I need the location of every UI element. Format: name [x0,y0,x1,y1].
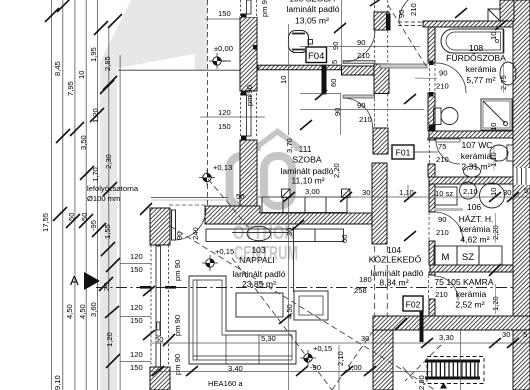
room 107 label [461,140,493,172]
chair room105 [289,31,313,53]
svg-text:90: 90 [439,69,447,78]
level mark 0,00 [209,44,233,69]
dashed diagonals [170,5,441,390]
black wall bar [322,65,326,94]
svg-text:pm 90: pm 90 [173,260,182,281]
top right wall piece [500,0,514,21]
svg-text:11,10 m²: 11,10 m² [291,176,324,186]
wall column between doors [374,64,389,94]
svg-text:laminált padló: laminált padló [370,268,423,278]
svg-text:2,85: 2,85 [103,56,112,71]
wall vestibule/room111 [342,66,376,75]
svg-text:210: 210 [435,290,448,299]
wall south band of upper section [205,206,376,224]
nappali NW door leaf [172,210,176,240]
window upper-left wall top [240,0,257,18]
black bar top [387,14,391,30]
WC door leaf [436,139,460,142]
svg-text:+0,15: +0,15 [215,247,234,256]
bathroom toilet [434,108,459,125]
wall left mid [240,140,257,206]
door dim texts [177,38,449,237]
bathroom top wall [423,21,514,27]
HAZT door arc [434,212,463,241]
svg-text:4,50: 4,50 [285,304,294,319]
svg-text:111: 111 [298,144,311,154]
nappali NW door arc [174,208,206,240]
svg-text:10: 10 [279,76,288,84]
corner marker sq right [342,189,351,198]
svg-text:60: 60 [340,235,349,243]
svg-text:1,20: 1,20 [105,332,114,347]
dimension ticks left column [45,0,122,368]
dryer SZ [457,246,479,265]
svg-text:108: 108 [469,43,484,53]
stairs [425,357,484,389]
wall column vestibule top [374,12,389,30]
svg-text:2,31 m²: 2,31 m² [461,162,490,172]
svg-text:F01: F01 [396,148,411,158]
wall bath/WC [429,131,513,138]
right exterior wall [513,0,530,390]
level mark +0,15 south [300,344,332,372]
svg-text:SZ: SZ [462,252,474,263]
svg-text:4,50: 4,50 [78,304,87,319]
bathroom sink [500,62,516,85]
terrace / eaves gray zone [100,0,208,390]
svg-text:1,00: 1,00 [347,363,362,372]
bottom left wall going down [373,330,393,390]
svg-text:laminált padló: laminált padló [280,166,333,176]
door room105 leaf [343,61,375,64]
door room111 leaf [343,95,375,98]
svg-text:NAPPALI: NAPPALI [239,255,275,265]
svg-text:HEA160 a: HEA160 a [208,379,243,388]
svg-text:2,80: 2,80 [417,375,426,390]
section line A-A dash-dot [96,287,530,289]
svg-text:F02: F02 [406,300,421,310]
door room111 arc [343,98,373,128]
svg-text:4,50: 4,50 [65,304,74,319]
eaves dashed line [207,0,209,207]
F04 box [306,47,327,63]
svg-text:150: 150 [130,265,143,274]
corridor west wall upper [373,128,388,154]
svg-text:8,84 m²: 8,84 m² [379,278,408,288]
corridor east wall segment 3 [428,138,435,140]
svg-text:1,10: 1,10 [489,152,498,167]
level mark +0,15 nappali [202,247,234,271]
svg-text:2,30: 2,30 [104,154,113,169]
window right wall [514,168,530,185]
svg-text:210: 210 [436,82,449,91]
svg-text:2,52 m²: 2,52 m² [455,300,484,310]
dimension ticks plan [140,0,519,376]
svg-text:104: 104 [387,245,402,255]
svg-text:laminált padló: laminált padló [232,269,285,279]
svg-text:3,60: 3,60 [89,302,98,317]
svg-text:3,00: 3,00 [305,187,320,196]
HAZT boiler circles [460,182,477,199]
svg-text:1,70: 1,70 [91,167,100,182]
svg-text:-95: -95 [89,220,98,231]
svg-text:2,20: 2,20 [332,163,341,178]
svg-text:30: 30 [362,188,370,197]
F02 box [403,296,423,311]
svg-text:150: 150 [130,363,143,372]
HAZT shelf [435,187,457,205]
F01 box [392,145,438,159]
room 104 label [369,245,424,288]
svg-text:75 105 KAMRA: 75 105 KAMRA [434,277,494,287]
svg-text:120: 120 [130,303,143,312]
svg-text:210: 210 [436,228,449,237]
svg-text:150: 150 [218,9,231,18]
svg-text:pm 9: pm 9 [260,0,269,17]
svg-text:105 SZOBA: 105 SZOBA [289,0,335,4]
svg-text:FÜRDŐSZOBA: FÜRDŐSZOBA [446,53,506,63]
svg-text:210: 210 [409,3,418,16]
svg-text:90: 90 [397,10,406,18]
corridor east wall segment 6 [429,241,435,265]
watermark logo roof [230,132,298,207]
corridor east wall segment 5 [429,184,435,212]
svg-text:150: 150 [130,316,143,325]
kitchen counter [206,226,344,292]
svg-text:90: 90 [331,42,340,50]
corridor east wall segment 2 [428,93,435,131]
WC basin [464,166,481,177]
corridor east wall segment 8 [429,299,435,317]
svg-text:kerámia: kerámia [461,151,492,161]
svg-text:258: 258 [354,286,367,295]
corner marker sq left [282,189,291,198]
corner vent square top right [488,9,500,21]
room111 wardrobe row [262,197,347,213]
svg-text:8,45: 8,45 [53,61,62,76]
wall WC/HAZT [429,177,513,184]
svg-text:210: 210 [436,155,449,164]
svg-text:240: 240 [191,227,200,240]
svg-text:SZOBA: SZOBA [292,155,321,165]
svg-text:90: 90 [357,101,365,110]
wall left upper [240,17,257,91]
svg-text:4,62 m²: 4,62 m² [460,235,489,245]
svg-text:5: 5 [524,186,528,195]
svg-text:M: M [442,252,450,263]
shower [481,99,512,130]
svg-text:F04: F04 [308,51,324,62]
windows nappali west wall [151,245,169,367]
eave base line [118,69,240,71]
svg-text:HÁZT. H.: HÁZT. H. [459,214,494,224]
svg-text:5: 5 [523,330,527,339]
svg-text:pm 90: pm 90 [173,315,182,336]
walls group [150,0,530,390]
sofa [189,276,296,364]
svg-text:120: 120 [218,108,231,117]
lintel bar corridor [380,64,427,68]
wall HAZT/KAMRA [430,265,513,272]
svg-text:2,10: 2,10 [463,187,478,196]
svg-text:5,77 m²: 5,77 m² [466,75,495,85]
svg-text:120: 120 [130,252,143,261]
wall block bottom left [150,367,170,390]
washing machine M [434,246,457,265]
corridor east wall segment 7 [429,272,435,275]
wall nib black sq [253,45,258,50]
door jamb dashes vestibule [375,0,388,128]
svg-text:17,55: 17,55 [41,213,50,232]
svg-text:7,95: 7,95 [66,81,75,96]
watermark O glyph 1 [230,156,254,206]
svg-text:13,05 m²: 13,05 m² [295,16,329,26]
svg-text:30: 30 [502,330,510,339]
hall top door dashes [398,21,424,23]
level mark +0,13 [199,163,232,186]
svg-text:KÖZLEKEDŐ: KÖZLEKEDŐ [369,255,422,265]
room 103 label [232,245,285,289]
svg-text:3,70: 3,70 [285,138,294,153]
room 105k label [434,277,494,310]
svg-text:9,10: 9,10 [53,375,62,390]
KAMRA door arc [434,276,458,300]
svg-text:laminált padló: laminált padló [286,4,339,14]
door room105 arc [343,30,375,62]
corridor west wall lower [372,163,387,244]
room 108 label [446,43,506,85]
svg-text:5,30: 5,30 [261,334,276,343]
svg-text:kerámia: kerámia [460,224,491,234]
svg-text:50: 50 [236,192,244,201]
svg-text:107 WC: 107 WC [461,140,492,150]
corridor east wall segment 4 [428,164,435,177]
steel post black bar [420,296,424,342]
svg-text:pm 90: pm 90 [245,85,254,106]
svg-text:60: 60 [329,79,338,87]
svg-text:90: 90 [175,232,184,240]
HAZT door lintel [434,208,463,211]
svg-text:180: 180 [359,275,372,284]
svg-text:210: 210 [357,51,370,60]
svg-text:106: 106 [467,202,482,212]
svg-text:±0,00: ±0,00 [214,44,233,53]
dim lines [120,0,530,390]
right side small dim lines [494,62,504,314]
table [236,293,283,317]
corridor east wall segment 1 [428,27,435,63]
left dimension rotated texts [41,47,114,390]
svg-text:150: 150 [218,122,231,131]
svg-text:kerámia: kerámia [456,289,487,299]
watermark O glyph 2 [264,156,292,206]
left dimension lines [52,0,121,390]
svg-text:90: 90 [438,215,446,224]
WC door arc [436,140,460,164]
svg-text:+0,15: +0,15 [313,344,332,353]
svg-text:3,30: 3,30 [439,333,454,342]
empty box [479,246,502,265]
svg-text:1,95: 1,95 [89,47,98,62]
hall top door arc [399,0,430,22]
thin partition room105/111 [258,65,342,70]
room 106 label [459,202,494,245]
svg-text:103: 103 [251,245,266,255]
parapet texts [130,9,244,372]
svg-text:120: 120 [130,350,143,359]
svg-text:23,85 m²: 23,85 m² [242,279,276,289]
svg-text:2,10: 2,10 [336,351,345,366]
svg-text:3,50: 3,50 [79,135,88,150]
svg-text:+0,13: +0,13 [213,163,232,172]
svg-text:kerámia: kerámia [466,64,497,74]
svg-text:10: 10 [489,123,498,131]
svg-text:210: 210 [359,115,372,124]
svg-text:30: 30 [503,188,511,197]
wall corner block nappali NW [150,208,170,245]
beam over NW door [151,197,228,199]
room 111 label [280,144,333,186]
bathroom door jamb caps [429,61,434,66]
bottom wall band [373,316,530,330]
bathroom door arc [436,63,466,93]
window in left upper wall [241,91,257,140]
svg-text:10: 10 [77,71,86,79]
svg-text:5: 5 [330,60,339,64]
WC toilet [490,145,513,161]
dim chain texts [228,186,528,373]
svg-text:10: 10 [489,32,498,40]
svg-text:1,55: 1,55 [103,224,112,239]
bathtub [441,29,504,53]
svg-text:A: A [70,273,79,288]
armchair [294,291,328,320]
svg-text:90: 90 [357,38,365,47]
svg-text:75: 75 [438,142,446,151]
